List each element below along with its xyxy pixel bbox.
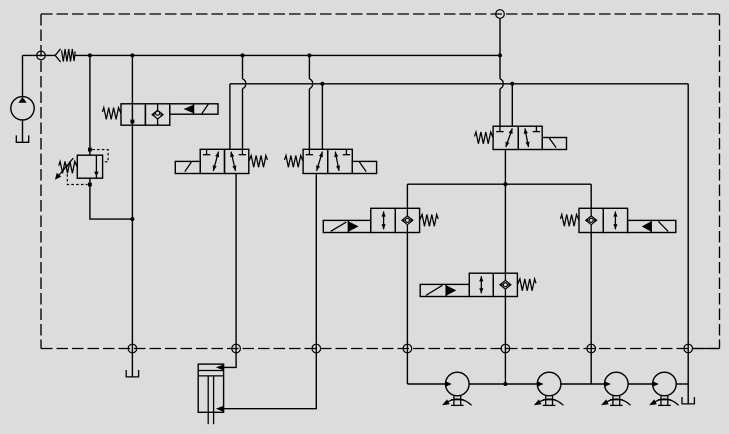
node supply-relief junction (88, 53, 92, 57)
hydraulic motor M1 (442, 372, 472, 405)
valve V6 body box 1 (579, 208, 603, 232)
wire valve A line (supply to tank) (131, 55, 133, 376)
boundary connector node P (circle) (37, 51, 46, 60)
wire supply to valve B (with jog) (243, 55, 246, 149)
tank T3 (right) (682, 397, 694, 404)
boundary connector node B2 (312, 344, 321, 353)
node supply-valveC junction (307, 53, 311, 57)
cylinder CYL1 (198, 364, 223, 424)
hydraulic motor M2 (534, 372, 564, 405)
wire motor line segment 2 (469, 383, 537, 385)
wire supply to valve D (with jog) (500, 55, 503, 126)
spring of valve V4 (475, 132, 494, 144)
wire motor line segment 3 (561, 383, 605, 385)
wire supply line left (23, 54, 56, 56)
node supply-valveA junction (130, 53, 134, 57)
wire manifold to valve D (511, 84, 513, 126)
wire pump suction (22, 120, 24, 142)
wire valve E down to motor line (406, 233, 408, 385)
valve V4 body box 2 (518, 126, 542, 149)
boundary connector node B1 (232, 344, 241, 353)
valve V5 body box 2 (395, 208, 419, 232)
boundary connector node M1 (403, 344, 412, 353)
node relief drain tap (88, 183, 92, 187)
spring of valve V6 (560, 215, 579, 227)
wire manifold to valve B (229, 84, 231, 150)
solenoid actuator of V5 (323, 220, 371, 232)
spring of RV1 (adjustable) (55, 158, 77, 180)
solenoid actuator of V2 (175, 161, 200, 173)
spring of valve V2 (249, 156, 268, 168)
pump P1 (11, 97, 34, 120)
node supply-valveD junction (498, 53, 502, 57)
boundary connector node R (right) (684, 344, 693, 353)
valve V5 body box 1 (371, 208, 396, 232)
wire return manifold line (230, 83, 688, 85)
valve V1 body box 1 (121, 104, 145, 125)
spring of valve V3 (285, 156, 304, 168)
check valve CV1 (inline, spring loaded) (55, 49, 75, 62)
valve V4 body box 1 (493, 126, 518, 149)
solenoid actuator of V3 (352, 161, 376, 173)
pilot line RV1 (dashed, right) (92, 150, 108, 162)
valve V2 body box 1 (200, 149, 224, 173)
wire supply line main (75, 54, 500, 56)
solenoid actuator of V4 (542, 138, 566, 150)
wire supply to valve C (with jog) (309, 55, 312, 149)
solenoid actuator of V6 (628, 220, 676, 232)
wire manifold to valve F (590, 184, 592, 208)
spring of valve V7 (517, 279, 536, 291)
boundary connector node M3 (587, 344, 596, 353)
solenoid actuator of V7 (420, 284, 469, 296)
valve V3 body box 2 (328, 149, 353, 173)
node manifold-valveC junction (320, 82, 324, 86)
boundary connector node M2 (501, 344, 510, 353)
valve V7 body box 1 (469, 273, 493, 296)
node drain junction (130, 217, 134, 221)
enclosure boundary bottom (dashed) (41, 348, 720, 350)
pilot line RV1 (dashed, left) (67, 165, 87, 185)
enclosure boundary right (dashed) (719, 14, 721, 349)
node manifold-valveD junction (510, 82, 514, 86)
wire valve C to cylinder rod (224, 174, 317, 409)
flow arrow into cylinder cap (216, 365, 224, 371)
flow arrow into cylinder rod side (216, 406, 224, 412)
wire valve F down to motor line (590, 233, 592, 385)
pressure relief valve RV1 (77, 155, 102, 178)
node motor line junction (503, 382, 507, 386)
node relief pilot tap (88, 148, 92, 152)
enclosure boundary left (dashed) (40, 14, 42, 349)
hydraulic motor M4 (649, 372, 679, 405)
wire valve G down to motor line (504, 297, 506, 385)
hydraulic motor M3 (601, 372, 631, 405)
wire relief feed (89, 55, 91, 155)
wire motor line segment 4 (628, 383, 653, 385)
valve V1 body box 2 (check valve) (145, 104, 169, 125)
valve V6 body box 2 (603, 208, 627, 232)
boundary connector node A (top) (496, 10, 505, 19)
wire motor manifold line (407, 183, 591, 185)
wire manifold to valve E (406, 184, 408, 208)
tank T1 (pump suction) (16, 135, 28, 142)
node valveD-manifold2 junction (503, 182, 507, 186)
wire manifold right drop (687, 84, 689, 404)
wire valve B to cylinder cap (224, 174, 236, 368)
wire motor line segment 1 (407, 383, 446, 385)
solenoid actuator of V1 (170, 104, 218, 114)
wire valve D bottom (504, 150, 506, 274)
valve V7 body box 2 (493, 273, 517, 296)
node supply-valveB junction (241, 53, 245, 57)
boundary connector node T1 (128, 344, 137, 353)
valve V2 body box 2 (225, 149, 249, 173)
wire top boundary to supply (499, 19, 501, 56)
wire relief drain (90, 178, 132, 219)
valve V3 body box 1 (303, 149, 328, 173)
spring of valve V5 (420, 215, 439, 227)
enclosure boundary top (dashed) (41, 13, 720, 15)
wire manifold to valve C (321, 84, 323, 150)
tank T2 (126, 370, 138, 377)
wire motor line segment 5 (676, 383, 688, 385)
wire pump outlet up (22, 55, 24, 97)
spring of valve V1 (102, 108, 121, 120)
